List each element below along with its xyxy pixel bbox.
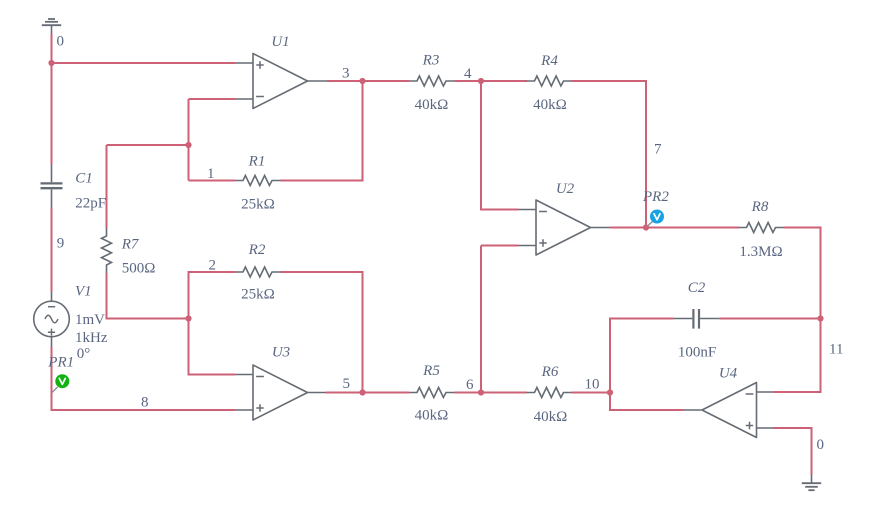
svg-text:40kΩ: 40kΩ	[533, 97, 567, 113]
svg-text:U2: U2	[556, 181, 575, 197]
wire (node 4 to R4)	[481, 80, 527, 82]
pin lead U1 + input	[235, 62, 254, 64]
wire (node 0 down to C1)	[51, 63, 53, 165]
svg-text:PR2: PR2	[642, 189, 669, 205]
wire (U1 - input from node 1 rail)	[189, 99, 236, 181]
wire (C2 to node 11)	[719, 318, 820, 320]
pin lead U1 output	[308, 80, 328, 82]
wire (R5 to node 6)	[455, 392, 482, 394]
svg-text:U1: U1	[271, 34, 289, 50]
wire (U1 output to node 3)	[327, 80, 363, 82]
wire (node 3 to R3)	[363, 80, 410, 82]
svg-text:40kΩ: 40kΩ	[534, 409, 568, 425]
svg-text:500Ω: 500Ω	[122, 261, 156, 277]
node 5 junction	[359, 389, 365, 395]
svg-text:25kΩ: 25kΩ	[241, 197, 275, 213]
svg-text:R1: R1	[248, 154, 266, 170]
resistor R5	[409, 388, 454, 398]
svg-text:11: 11	[829, 342, 843, 358]
svg-text:7: 7	[654, 142, 662, 158]
pin lead U4 + input	[756, 427, 774, 429]
pin lead U4 - input	[756, 391, 774, 393]
wire (node 11 down to U4 -)	[774, 319, 821, 393]
svg-text:R6: R6	[541, 364, 559, 380]
svg-text:6: 6	[466, 377, 474, 393]
pin lead U3 output	[308, 392, 327, 394]
svg-text:0: 0	[57, 34, 65, 50]
capacitor C2	[674, 309, 720, 329]
svg-text:10: 10	[585, 377, 600, 393]
source V1 (AC 1mV 1kHz)	[34, 292, 70, 348]
svg-text:40kΩ: 40kΩ	[415, 97, 449, 113]
svg-text:R8: R8	[751, 199, 769, 215]
probe PR2 (blue voltage probe)	[647, 210, 664, 227]
wire (node 4 down to U2 -)	[481, 81, 519, 210]
node junction (R7 bottom / V1 net)	[185, 315, 191, 321]
pin lead U1 - input	[235, 98, 254, 100]
svg-text:R4: R4	[540, 53, 558, 69]
wire (U2 + down to node 6)	[481, 246, 519, 393]
svg-text:25kΩ: 25kΩ	[241, 287, 275, 303]
wire (node 10 down to U4 output)	[610, 393, 684, 411]
wire (PR2 node to R8)	[646, 227, 739, 229]
svg-text:1.3MΩ: 1.3MΩ	[739, 244, 782, 260]
wire (node 0 to U1 + input)	[52, 62, 236, 64]
node 10 junction	[607, 389, 613, 395]
svg-text:R3: R3	[422, 53, 440, 69]
pin lead U3 + input	[235, 409, 254, 411]
node 0 junction	[48, 60, 54, 66]
wire (R7 top lead down)	[106, 145, 108, 228]
svg-text:R5: R5	[422, 363, 440, 379]
svg-text:4: 4	[464, 66, 472, 82]
svg-text:9: 9	[57, 236, 65, 252]
wire (U4 + to ground)	[774, 428, 812, 475]
svg-text:1kHz: 1kHz	[75, 330, 108, 346]
svg-text:U3: U3	[272, 345, 290, 361]
svg-text:3: 3	[342, 66, 350, 82]
op-amp U3	[253, 365, 308, 420]
pin lead U3 - input	[235, 374, 254, 376]
resistor R7	[102, 228, 112, 274]
resistor R8	[739, 223, 784, 233]
pin lead U2 - input	[519, 209, 537, 211]
wire (U3 output to node 5)	[326, 392, 363, 394]
svg-text:1: 1	[207, 166, 215, 182]
resistor R2	[235, 267, 280, 277]
probe PR1 (green voltage probe)	[52, 374, 69, 392]
resistor R4	[527, 76, 572, 86]
svg-text:8: 8	[141, 395, 149, 411]
wire (R4 right corner down net 7)	[572, 81, 647, 228]
svg-text:R7: R7	[121, 237, 140, 253]
node 6 junction	[478, 389, 484, 395]
wire (junction down to U3 -)	[189, 319, 236, 375]
op-amp U2	[536, 200, 591, 255]
ground (net 0, top left)	[42, 19, 61, 35]
svg-text:R2: R2	[248, 242, 266, 258]
wire (node 5 to R5)	[363, 392, 410, 394]
wire (R3 to node 4)	[455, 80, 482, 82]
pin lead U2 + input	[519, 245, 537, 247]
capacitor C1	[41, 165, 63, 209]
wire (node 6 to R6)	[481, 392, 527, 394]
wire (ground stem to junction node 0)	[51, 34, 53, 63]
wire (node 1 to R1)	[189, 180, 236, 182]
svg-text:0: 0	[817, 437, 825, 453]
svg-text:22pF: 22pF	[75, 196, 106, 212]
resistor R3	[409, 76, 454, 86]
node junction (R7 top / U1 -)	[185, 142, 191, 148]
wire (V1 to node 8 corner)	[52, 347, 236, 410]
wire (R6 to node 10)	[572, 392, 611, 394]
wire (R2 right down to node 5)	[281, 272, 363, 393]
wire (U2 output to PR2 node)	[610, 227, 647, 229]
wire (junction up to node 2)	[189, 272, 236, 319]
svg-text:U4: U4	[719, 366, 738, 382]
svg-text:0°: 0°	[77, 346, 91, 362]
wire (R8 right corner down to node 11)	[784, 228, 821, 319]
wire (node 10 up to C2 row)	[610, 319, 674, 393]
node 3 junction	[359, 78, 365, 84]
pin lead U4 output	[684, 409, 702, 411]
svg-text:2: 2	[209, 258, 217, 274]
svg-text:PR1: PR1	[47, 355, 74, 371]
resistor R6	[527, 388, 572, 398]
resistor R1	[235, 176, 280, 186]
ground (net 0, bottom right)	[802, 475, 821, 491]
svg-text:5: 5	[343, 376, 351, 392]
svg-text:C2: C2	[688, 280, 706, 296]
svg-text:V1: V1	[75, 284, 92, 300]
node 4 junction	[478, 78, 484, 84]
wire (R7 bottom to junction)	[107, 273, 189, 319]
wire (net 9, C1 to V1)	[51, 208, 53, 292]
wire (R1 right up to node 3)	[281, 81, 363, 181]
op-amp U1	[253, 54, 308, 109]
svg-text:1mV: 1mV	[75, 312, 105, 328]
op-amp U4 (mirrored)	[702, 383, 757, 438]
pin lead U2 output	[591, 227, 610, 229]
svg-text:100nF: 100nF	[678, 345, 716, 361]
svg-text:C1: C1	[75, 171, 93, 187]
node 11 junction	[817, 315, 823, 321]
svg-text:40kΩ: 40kΩ	[415, 408, 449, 424]
node junction (U2 out / PR2)	[643, 224, 649, 230]
wire (R7 top horizontal)	[107, 144, 189, 146]
